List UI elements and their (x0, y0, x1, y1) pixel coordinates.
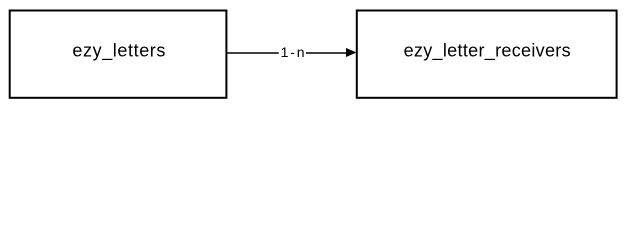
svg-text:1-n: 1-n (281, 44, 305, 60)
svg-text:ezy_letter_receivers: ezy_letter_receivers (404, 41, 571, 62)
wire relation line (227, 52, 349, 54)
entity box ezy_letters (10, 11, 227, 98)
arrowhead (346, 48, 357, 57)
entity label ezy_letter_receivers (404, 41, 571, 62)
svg-text:ezy_letters: ezy_letters (72, 41, 165, 62)
entity label ezy_letters (72, 41, 165, 62)
label background 1-n (279, 46, 306, 60)
cardinality label 1-n (281, 44, 305, 60)
entity box ezy_letter_receivers (357, 11, 617, 98)
